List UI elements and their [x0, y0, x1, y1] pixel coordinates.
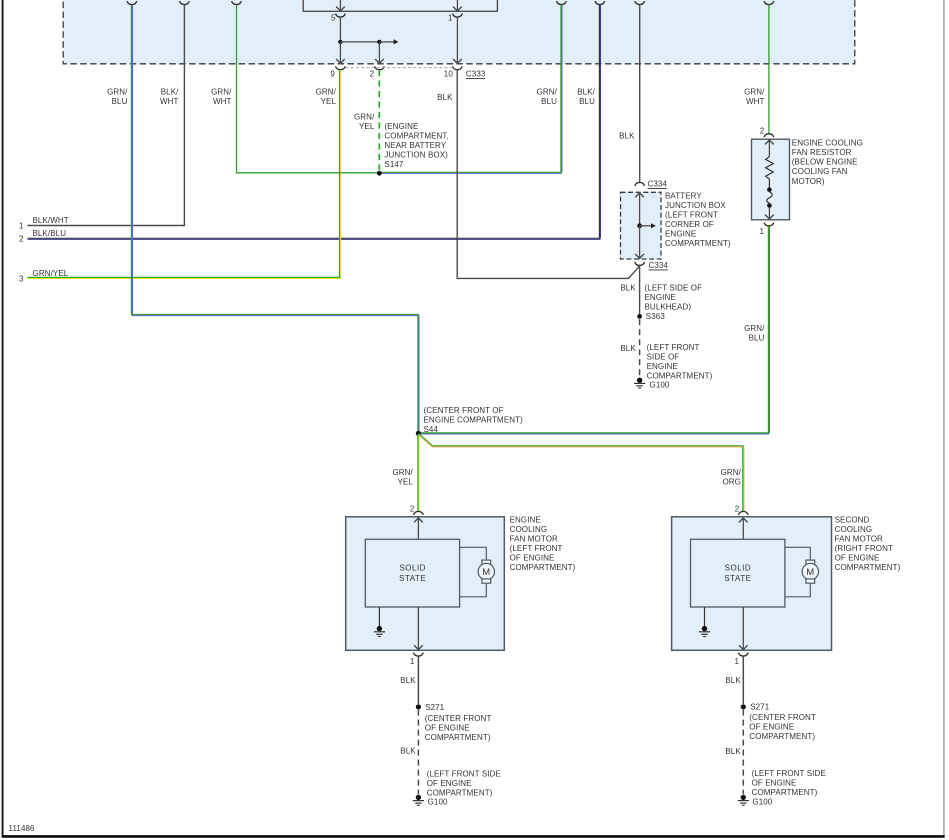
svg-text:WHT: WHT [160, 97, 179, 106]
wire pin5 down [339, 17, 341, 42]
second cooling fan motor box [672, 517, 832, 651]
left fan motor wiring top [460, 547, 487, 560]
label GRN/BLU lower right [744, 324, 765, 343]
svg-text:(RIGHT FRONT: (RIGHT FRONT [835, 544, 893, 553]
left fan motor M1 [478, 560, 494, 583]
C333 connector dashed link [346, 67, 453, 69]
label GRN/BLU mid [537, 87, 558, 106]
engine cooling fan motor box [346, 517, 505, 651]
svg-text:COMPARTMENT): COMPARTMENT) [510, 563, 576, 572]
label BLK above G100 left-mid [620, 344, 636, 353]
svg-text:STATE: STATE [724, 574, 751, 583]
svg-text:BLK: BLK [400, 676, 416, 685]
ground G100 left [413, 795, 448, 807]
connector cup top GRN/WHT right [764, 1, 774, 4]
splice S44 [416, 431, 421, 436]
svg-text:GRN/: GRN/ [211, 87, 232, 96]
svg-text:COMPARTMENT): COMPARTMENT) [749, 732, 815, 741]
wire BLK right fan to S271 [742, 656, 744, 704]
connector cup top GRN/BLU right [557, 1, 567, 4]
right fan label text [835, 516, 901, 573]
svg-text:GRN/: GRN/ [107, 87, 128, 96]
svg-text:STATE: STATE [399, 574, 426, 583]
svg-text:ENGINE: ENGINE [647, 362, 678, 371]
ground G100 (battery column) [634, 378, 670, 390]
resistor pin 2 cup [760, 126, 774, 137]
svg-text:C333: C333 [466, 70, 486, 79]
C333 cup pin 2 [370, 66, 385, 78]
svg-text:FAN RESISTOR: FAN RESISTOR [792, 148, 852, 157]
svg-text:OF ENGINE: OF ENGINE [510, 554, 555, 563]
label GRN/ORG right fan [721, 468, 742, 487]
battery box junction dot [637, 223, 642, 228]
label BLK pin10 [437, 93, 453, 102]
svg-text:OF ENGINE: OF ENGINE [752, 779, 797, 788]
svg-text:GRN/: GRN/ [744, 324, 765, 333]
wire BLK C334 to S363 [639, 266, 641, 314]
label GRN/YEL pin9 [316, 87, 337, 106]
svg-text:NEAR BATTERY: NEAR BATTERY [384, 141, 446, 150]
svg-text:3: 3 [19, 275, 24, 284]
wire GRN/YEL (pin 9 to terminal 3) [28, 70, 341, 279]
splice S147 [377, 171, 382, 176]
left fan pin 2 cup [410, 504, 423, 515]
svg-text:ENGINE COMPARTMENT): ENGINE COMPARTMENT) [424, 415, 524, 424]
wire BLK (top cup to C334) [639, 5, 641, 183]
svg-text:(LEFT FRONT: (LEFT FRONT [647, 343, 700, 352]
svg-text:BULKHEAD): BULKHEAD) [645, 303, 692, 312]
svg-text:1: 1 [19, 221, 24, 230]
arrow down to relay box edge pin5 [336, 0, 345, 11]
svg-text:BLU: BLU [541, 97, 557, 106]
wire GRN/BLU (right cup to S147) [379, 5, 562, 174]
arrow down dot B to C333 [375, 42, 384, 64]
engine cooling fan resistor box [752, 139, 790, 220]
left fan label text [510, 516, 576, 573]
svg-text:JUNCTION BOX: JUNCTION BOX [665, 201, 726, 210]
left fan motor wiring bottom [460, 584, 487, 597]
svg-text:M: M [806, 567, 814, 578]
svg-text:1: 1 [410, 657, 415, 666]
right fan pin 1 cup [734, 653, 748, 667]
pin 1 cup [448, 14, 462, 23]
diagram id label 111486 [9, 824, 36, 833]
svg-text:COMPARTMENT): COMPARTMENT) [425, 733, 491, 742]
svg-text:OF ENGINE: OF ENGINE [749, 723, 794, 732]
svg-text:SIDE OF: SIDE OF [647, 353, 680, 362]
svg-text:COOLING: COOLING [835, 525, 873, 534]
label BLK/BLU column [577, 87, 595, 106]
connector cup top BLK [635, 1, 645, 4]
battery box arrow down [635, 226, 644, 259]
svg-text:JUNCTION BOX): JUNCTION BOX) [384, 150, 448, 159]
svg-text:(LEFT FRONT: (LEFT FRONT [510, 544, 563, 553]
svg-text:10: 10 [444, 70, 454, 79]
G100 location text left [427, 769, 501, 797]
svg-text:BLK: BLK [437, 93, 453, 102]
svg-text:BLK: BLK [620, 344, 636, 353]
C334 top cup [635, 180, 668, 189]
svg-text:SOLID: SOLID [725, 564, 752, 573]
C333 cup pin 10 [444, 66, 463, 78]
C334 bottom cup [635, 261, 669, 270]
battery box arrow up [635, 193, 644, 226]
thermal element s-curve [767, 192, 772, 203]
arrow right from dot B [379, 39, 398, 44]
label GRN/WHT right [744, 87, 765, 106]
svg-text:S271: S271 [750, 703, 770, 712]
svg-text:2: 2 [760, 126, 765, 135]
label GRN/WHT left [211, 87, 232, 106]
resistor internal dot lower [767, 203, 772, 208]
terminal 2 [19, 229, 66, 244]
svg-text:2: 2 [735, 504, 740, 513]
svg-text:MOTOR): MOTOR) [792, 177, 825, 186]
wire GRN/YEL dashed (pin 2 to S147) [378, 70, 380, 170]
svg-text:BLK: BLK [725, 747, 741, 756]
wire GRN/WHT (right cup to resistor) [768, 5, 770, 134]
battery junction box (dashed) [621, 192, 662, 259]
svg-text:S147: S147 [384, 160, 404, 169]
terminal 3 [19, 269, 69, 284]
svg-text:2: 2 [19, 235, 24, 244]
battery box label [665, 191, 731, 248]
left fan internal ground [374, 607, 385, 637]
svg-text:(CENTER FRONT OF: (CENTER FRONT OF [424, 406, 504, 415]
left fan solid state inner box [365, 539, 459, 607]
svg-text:1: 1 [759, 227, 764, 236]
svg-text:ENGINE: ENGINE [665, 229, 696, 238]
connector cup top GRN/BLU [127, 1, 137, 4]
svg-text:BLU: BLU [579, 97, 595, 106]
resistor label text [792, 138, 863, 185]
C333 cup pin 9 [330, 66, 345, 78]
svg-text:ENGINE: ENGINE [510, 516, 541, 525]
wire pin1 down, arrow to C333 [453, 17, 462, 63]
pin 5 cup [331, 14, 345, 23]
svg-text:COMPARTMENT): COMPARTMENT) [665, 239, 731, 248]
left fan pin 1 cup [410, 653, 423, 667]
svg-text:111486: 111486 [9, 824, 36, 833]
connector cup top BLK/BLU [595, 1, 605, 4]
svg-text:GRN/: GRN/ [354, 113, 375, 122]
resistor arrow up (pin2 side) [765, 140, 774, 157]
C333 label [466, 70, 486, 79]
G100 location text mid [647, 343, 713, 381]
svg-text:BLU: BLU [112, 97, 128, 106]
connector cup top BLK/WHT [180, 1, 190, 4]
arrow down to relay box edge pin1 [453, 0, 462, 11]
label BLK left fan [400, 676, 416, 685]
right fan arrow down to box bottom [739, 607, 748, 650]
svg-text:2: 2 [370, 70, 375, 79]
svg-text:WHT: WHT [746, 97, 765, 106]
svg-text:G100: G100 [650, 380, 670, 389]
battery box arrow right [640, 223, 656, 228]
right fan internal ground [699, 607, 710, 637]
svg-text:SECOND: SECOND [835, 516, 870, 525]
svg-text:BLK: BLK [725, 676, 741, 685]
svg-text:(ENGINE: (ENGINE [384, 122, 418, 131]
svg-text:BLU: BLU [749, 334, 765, 343]
wire GRN/ORG (S44 to right fan) [419, 434, 744, 512]
svg-text:COOLING FAN: COOLING FAN [792, 167, 848, 176]
svg-text:CORNER OF: CORNER OF [665, 220, 714, 229]
resistor arrow down (pin1 side) [765, 208, 774, 219]
label BLK above S363 [620, 284, 636, 293]
svg-text:(LEFT FRONT SIDE: (LEFT FRONT SIDE [752, 769, 826, 778]
svg-text:BLK/: BLK/ [161, 87, 179, 96]
svg-text:BLK: BLK [400, 746, 416, 755]
svg-text:(LEFT FRONT: (LEFT FRONT [665, 210, 718, 219]
resistor pin 1 cup [759, 223, 773, 237]
label BLK left lower [400, 746, 416, 755]
svg-text:ENGINE COOLING: ENGINE COOLING [792, 138, 863, 147]
svg-text:GRN/: GRN/ [744, 87, 765, 96]
svg-text:BLK: BLK [620, 284, 636, 293]
left fan arrow up from inner box [414, 518, 423, 539]
label BLK battery col [619, 132, 635, 141]
label BLK/WHT column [160, 87, 179, 106]
svg-text:BLK/: BLK/ [577, 87, 595, 96]
junction dot A [338, 40, 342, 44]
G100 location text right [752, 769, 826, 797]
svg-text:BLK/WHT: BLK/WHT [33, 216, 69, 225]
wire GRN/YEL (S44 to left fan) [418, 434, 419, 511]
PCM dashed box (top, cut off) [63, 0, 855, 64]
svg-text:GRN/: GRN/ [392, 468, 413, 477]
svg-text:BLK: BLK [619, 132, 635, 141]
left fan arrow down to box bottom [414, 607, 423, 650]
svg-text:M: M [482, 567, 490, 578]
wire BLK dashed S363 to G100 [639, 319, 641, 377]
label GRN/YEL dashed [354, 113, 375, 132]
svg-text:S271: S271 [425, 703, 445, 712]
label GRN/YEL left fan [392, 468, 413, 487]
connector cup top GRN/WHT [232, 1, 242, 4]
svg-text:COMPARTMENT): COMPARTMENT) [427, 788, 493, 797]
svg-text:(BELOW ENGINE: (BELOW ENGINE [792, 158, 858, 167]
wire BLK dashed left to G100 [417, 710, 419, 795]
right fan motor wiring top [785, 547, 810, 560]
svg-text:COMPARTMENT,: COMPARTMENT, [384, 131, 448, 140]
svg-text:FAN MOTOR: FAN MOTOR [510, 535, 558, 544]
wire GRN/BLU (resistor pin1 to S44) [418, 226, 770, 434]
svg-text:9: 9 [330, 70, 335, 79]
S44 location text [424, 406, 524, 434]
svg-text:WHT: WHT [213, 97, 232, 106]
PCM inner relay box (solid border, cut off) [303, 0, 497, 11]
wire BLK/WHT (cup to terminal 1) [28, 5, 186, 226]
svg-text:YEL: YEL [397, 478, 413, 487]
svg-text:COOLING: COOLING [510, 525, 548, 534]
svg-text:5: 5 [331, 14, 336, 23]
ground G100 right [738, 795, 773, 807]
svg-text:(LEFT SIDE OF: (LEFT SIDE OF [645, 284, 703, 293]
svg-text:S363: S363 [646, 312, 666, 321]
right fan arrow up from inner box [739, 518, 748, 539]
svg-text:BATTERY: BATTERY [665, 191, 702, 200]
svg-text:GRN/YEL: GRN/YEL [33, 269, 69, 278]
S147 location text [384, 122, 448, 169]
arrow down dot A to C333 [336, 42, 345, 64]
svg-text:COMPARTMENT): COMPARTMENT) [647, 372, 713, 381]
splice S271 right [741, 703, 770, 712]
terminal 1 [19, 216, 69, 231]
label BLK right lower [725, 747, 741, 756]
right fan motor M2 [802, 560, 818, 583]
wire GRN/WHT (cup to S147) [236, 5, 379, 173]
svg-text:1: 1 [448, 14, 453, 23]
svg-text:COMPARTMENT): COMPARTMENT) [752, 788, 818, 797]
svg-text:C334: C334 [648, 180, 668, 189]
right fan SOLID STATE text [724, 564, 751, 583]
resistor internal dot upper [767, 187, 772, 192]
wire BLK (pin 10 to C334 joint) [457, 70, 640, 279]
svg-text:YEL: YEL [321, 97, 337, 106]
splice S363 [637, 312, 665, 321]
svg-text:GRN/: GRN/ [537, 87, 558, 96]
svg-text:BLK/BLU: BLK/BLU [33, 229, 67, 238]
label GRN/BLU left [107, 87, 128, 106]
svg-text:OF ENGINE: OF ENGINE [427, 779, 472, 788]
svg-text:SOLID: SOLID [399, 564, 426, 573]
svg-text:GRN/: GRN/ [721, 468, 742, 477]
svg-text:1: 1 [734, 657, 739, 666]
wire BLK dashed right to G100 [742, 710, 744, 795]
svg-text:OF ENGINE: OF ENGINE [835, 554, 880, 563]
S271 location text right [749, 713, 816, 741]
resistor element zigzag [766, 157, 774, 188]
label BLK right fan [725, 676, 741, 685]
S271 location text left [425, 714, 492, 742]
right fan pin 2 cup [735, 504, 748, 515]
svg-text:FAN MOTOR: FAN MOTOR [835, 535, 883, 544]
svg-text:COMPARTMENT): COMPARTMENT) [835, 563, 901, 572]
left fan SOLID STATE text [399, 564, 426, 583]
svg-text:YEL: YEL [359, 122, 375, 131]
wire BLK/BLU (cup to terminal 2) [28, 5, 601, 240]
svg-text:ORG: ORG [722, 478, 741, 487]
svg-text:G100: G100 [428, 798, 448, 807]
svg-text:GRN/: GRN/ [316, 87, 337, 96]
S363 location text [645, 284, 703, 312]
splice S271 left [416, 703, 445, 712]
wire BLK left fan to S271 [417, 656, 419, 704]
right fan motor wiring bottom [785, 584, 810, 597]
right fan solid state inner box [691, 539, 785, 607]
svg-text:ENGINE: ENGINE [645, 293, 676, 302]
svg-text:(LEFT FRONT SIDE: (LEFT FRONT SIDE [427, 769, 501, 778]
svg-text:(CENTER FRONT: (CENTER FRONT [749, 713, 816, 722]
svg-text:G100: G100 [752, 798, 772, 807]
svg-text:OF ENGINE: OF ENGINE [425, 723, 470, 732]
svg-text:(CENTER FRONT: (CENTER FRONT [425, 714, 492, 723]
wire GRN/BLU (left cup to S44) [131, 5, 419, 434]
junction dot B [377, 40, 381, 44]
svg-text:2: 2 [410, 504, 415, 513]
wire dot A to dot B [340, 41, 379, 43]
svg-text:S44: S44 [424, 425, 439, 434]
svg-text:C334: C334 [649, 261, 669, 270]
